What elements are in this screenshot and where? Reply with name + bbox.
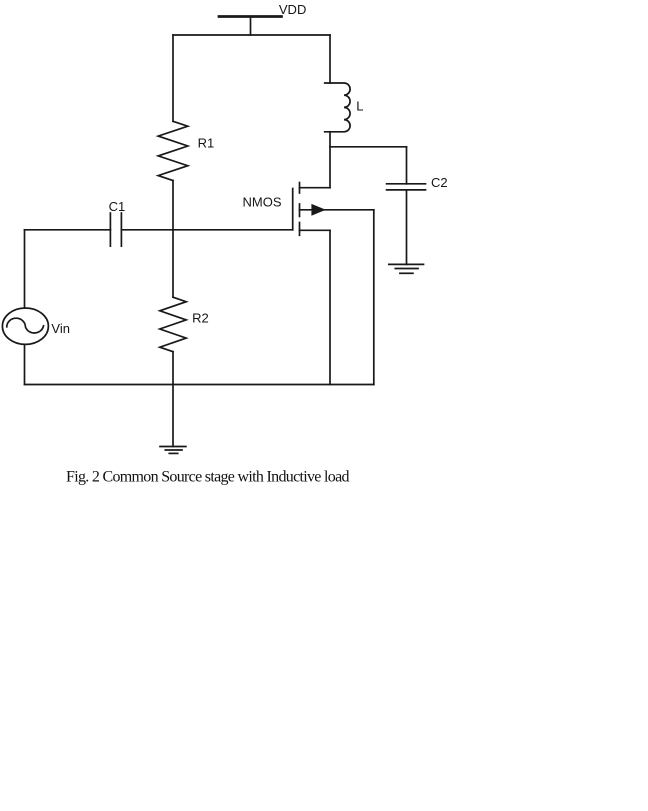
wire source stub	[300, 229, 331, 231]
wire left down to Vin	[24, 230, 26, 308]
wire bottom rail	[25, 384, 374, 386]
svg-text:R1: R1	[198, 135, 215, 150]
wire drain stub	[300, 187, 331, 189]
wire body line	[300, 209, 374, 211]
wire L bottom to drain	[329, 132, 331, 188]
transistor NMOS gate bar	[292, 189, 294, 230]
svg-text:C1: C1	[109, 199, 126, 214]
svg-text:C2: C2	[431, 175, 448, 190]
svg-text:L: L	[356, 99, 363, 114]
wire R2 bottom through rail to ground	[172, 352, 174, 447]
wire gate input right of C1	[121, 229, 292, 231]
resistor R2	[160, 297, 186, 352]
transistor NMOS body arrow	[311, 204, 325, 216]
wire junction to R2	[172, 230, 174, 297]
ground below C2	[389, 263, 424, 265]
capacitor C1	[109, 213, 111, 246]
resistor R1	[158, 121, 188, 180]
inductor L	[325, 83, 350, 132]
wire left branch down to R1	[172, 35, 174, 121]
wire body down to bottom rail	[373, 210, 375, 385]
svg-text:R2: R2	[192, 310, 209, 325]
svg-text:Vin: Vin	[51, 321, 70, 336]
wire Vin bottom	[24, 345, 26, 385]
source Vin sine	[7, 318, 44, 333]
wire source down to bottom rail	[329, 230, 331, 384]
ground below R2	[160, 446, 186, 448]
transistor NMOS channel segments	[299, 183, 301, 194]
wire R1 bottom to gate-wire junction	[172, 181, 174, 230]
source Vin circle	[2, 308, 48, 344]
svg-text:Fig. 2 Common Source stage wit: Fig. 2 Common Source stage with Inductiv…	[66, 469, 350, 486]
capacitor C2	[387, 183, 426, 185]
svg-text:NMOS: NMOS	[243, 195, 282, 210]
wire right branch down to L	[329, 35, 331, 83]
wire C2 top stem	[406, 147, 408, 184]
svg-text:VDD: VDD	[279, 2, 306, 17]
wire gate input left of C1	[25, 229, 111, 231]
wire top rail	[173, 34, 330, 36]
wire drain node to C2	[330, 146, 407, 148]
power symbol VDD	[219, 15, 282, 18]
wire C2 bottom stem	[406, 190, 408, 265]
wire VDD stem	[250, 17, 252, 35]
